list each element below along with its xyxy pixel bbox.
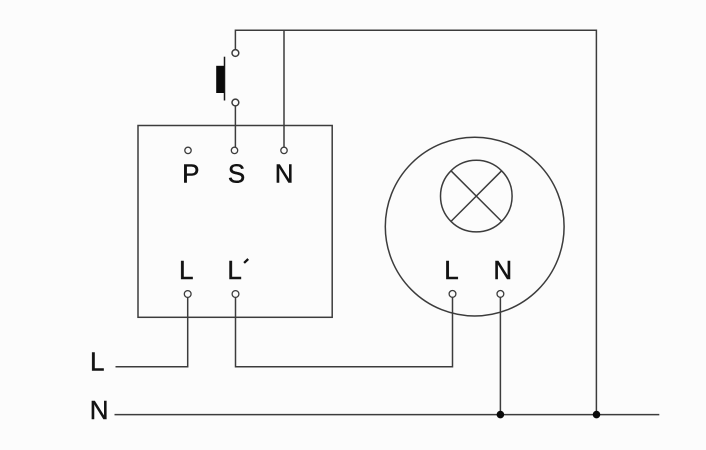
wire: from pushbutton top terminal up and right along top, then down right side to N line [235, 30, 596, 413]
terminal L of lamp [449, 291, 456, 298]
wire: lamp N terminal down to N line [499, 297, 501, 414]
svg-text:L: L [444, 255, 458, 285]
lamp E1 bulb symbol circle [441, 160, 513, 232]
terminal L of U1 [184, 291, 191, 298]
terminal N of lamp [497, 291, 504, 298]
wire: top bus down to N terminal of control unit [283, 30, 285, 147]
prime mark of L' [244, 259, 248, 263]
wire: L' terminal of U1 down, right, and up to lamp L terminal [236, 297, 453, 367]
terminal N of U1 [281, 147, 287, 153]
junction: lamp N on neutral line [497, 411, 505, 419]
wire: L terminal of U1 down and left to L feed [116, 297, 188, 366]
lamp E1 bulb X stroke 2 [451, 171, 502, 222]
pushbutton S1 top terminal [232, 50, 239, 57]
svg-text:S: S [228, 158, 245, 188]
pushbutton S1 contact bar [224, 57, 226, 101]
terminal S of U1 [231, 147, 237, 153]
junction: right-side N drop on neutral line [593, 411, 601, 419]
pushbutton S1 actuator (filled) [216, 66, 224, 93]
control unit U1 (box) [138, 126, 332, 318]
lamp E1 housing (big circle) [385, 137, 564, 316]
svg-text:L: L [179, 255, 193, 285]
wire: pushbutton bottom terminal to S terminal of control unit [234, 106, 236, 147]
pushbutton S1 bottom terminal [232, 99, 239, 106]
svg-text:P: P [182, 158, 199, 188]
wire: N neutral line [115, 414, 660, 416]
terminal L' of U1 [232, 291, 239, 298]
svg-text:N: N [90, 395, 109, 425]
svg-text:N: N [275, 158, 294, 188]
svg-text:L: L [227, 255, 241, 285]
lamp E1 bulb X stroke 1 [451, 171, 502, 222]
svg-text:L: L [90, 347, 104, 377]
terminal P of U1 [185, 147, 191, 153]
svg-text:N: N [493, 255, 512, 285]
